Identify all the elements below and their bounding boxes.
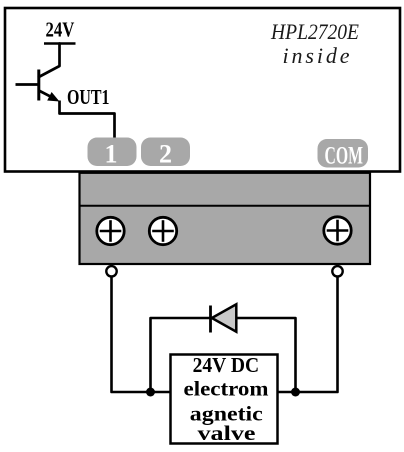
terminal tab 1 <box>88 138 137 169</box>
svg-text:inside: inside <box>283 43 350 68</box>
terminal block divider <box>80 205 371 207</box>
transistor Q1 emitter arrowhead <box>47 92 59 102</box>
wire diode loop left side <box>151 318 210 392</box>
svg-text:2: 2 <box>159 140 172 169</box>
screw terminal COM <box>324 217 351 244</box>
svg-text:1: 1 <box>105 140 118 169</box>
terminal pin circle left <box>106 266 116 276</box>
svg-text:OUT1: OUT1 <box>67 85 110 109</box>
valve box 24V DC electromagnetic valve <box>171 355 278 444</box>
terminal pin circle right <box>332 266 342 276</box>
junction node right <box>291 388 300 397</box>
wire right terminal pin to valve <box>278 278 338 393</box>
wire 24V rail to collector <box>39 44 60 78</box>
power rail 24V bar <box>44 42 76 45</box>
svg-text:COM: COM <box>325 141 364 170</box>
svg-text:HPL2720E: HPL2720E <box>270 19 359 44</box>
svg-text:24V DC: 24V DC <box>193 353 260 377</box>
diode D1 body <box>212 304 237 331</box>
terminal tab 2 <box>141 138 190 169</box>
svg-text:valve: valve <box>198 421 256 445</box>
diode D1 cathode bar <box>209 306 212 333</box>
wire left terminal pin to valve <box>112 278 171 393</box>
transistor Q1 base bar <box>37 70 40 101</box>
screw terminal 1 <box>97 217 124 244</box>
wire emitter to terminal tab 1 (OUT1 net) <box>60 101 115 143</box>
junction node left <box>146 388 155 397</box>
wire diode loop right side <box>237 318 296 392</box>
svg-text:electrom: electrom <box>184 377 270 401</box>
terminal tab COM <box>318 139 369 170</box>
transistor Q1 base lead <box>16 83 39 86</box>
screw terminal 2 <box>149 217 176 244</box>
svg-text:24V: 24V <box>46 18 75 42</box>
transistor Q1 emitter <box>39 91 52 98</box>
device box U1 (HPL2720E module) <box>5 8 400 172</box>
terminal block <box>80 173 371 264</box>
